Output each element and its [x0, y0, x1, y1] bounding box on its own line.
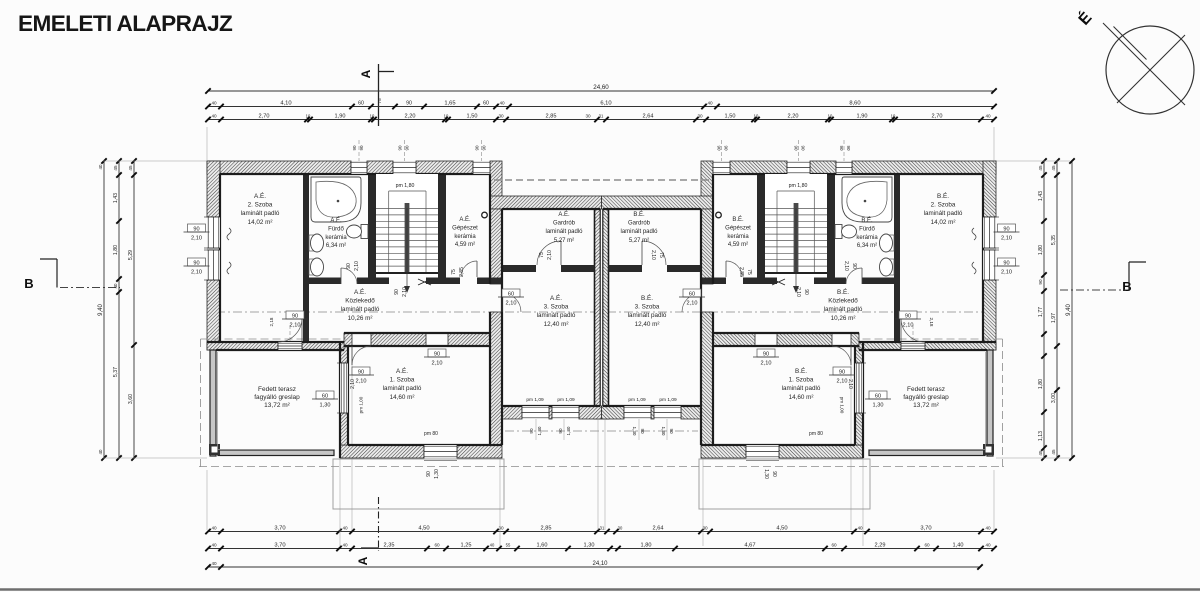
svg-text:Gardrób: Gardrób: [628, 221, 651, 227]
svg-text:1. Szoba: 1. Szoba: [390, 377, 415, 384]
svg-text:60: 60: [831, 542, 837, 547]
svg-text:fagyálló greslap: fagyálló greslap: [903, 394, 949, 401]
svg-text:90: 90: [763, 352, 769, 358]
wash basins: [309, 235, 314, 251]
svg-text:40: 40: [113, 283, 118, 288]
svg-text:45: 45: [1051, 165, 1056, 171]
svg-text:1,65: 1,65: [444, 100, 455, 106]
svg-text:A.É.: A.É.: [354, 287, 366, 296]
svg-text:90: 90: [394, 289, 400, 295]
svg-text:40: 40: [707, 100, 713, 105]
svg-text:3,70: 3,70: [274, 525, 285, 531]
svg-text:30: 30: [498, 113, 504, 118]
svg-text:1,80: 1,80: [1038, 379, 1044, 389]
svg-text:2,70: 2,70: [259, 113, 270, 119]
bottom dimension line row 1: [208, 531, 994, 533]
svg-text:3,60: 3,60: [128, 394, 134, 404]
svg-text:4,59 m²: 4,59 m²: [728, 242, 748, 248]
svg-text:90: 90: [193, 261, 199, 267]
svg-text:1,80: 1,80: [113, 245, 119, 255]
svg-text:pm 1,80: pm 1,80: [396, 183, 415, 189]
svg-text:6,10: 6,10: [600, 100, 611, 106]
svg-text:2,64: 2,64: [653, 525, 664, 531]
svg-text:B.É.: B.É.: [937, 191, 949, 200]
svg-text:1. Szoba: 1. Szoba: [789, 377, 814, 384]
svg-text:pm 1,09: pm 1,09: [557, 397, 575, 403]
svg-text:kerámia: kerámia: [454, 234, 476, 240]
flue circle in mechanical room: [482, 212, 488, 218]
svg-text:2,10: 2,10: [837, 379, 848, 385]
svg-text:laminált padló: laminált padló: [824, 306, 863, 313]
svg-text:90: 90: [905, 314, 911, 320]
svg-text:3,70: 3,70: [920, 525, 931, 531]
svg-text:30: 30: [585, 113, 591, 118]
svg-text:10: 10: [891, 113, 896, 118]
svg-text:10: 10: [444, 113, 449, 118]
svg-text:45: 45: [128, 165, 133, 171]
svg-text:40: 40: [342, 525, 348, 530]
svg-text:2,10: 2,10: [402, 287, 408, 297]
svg-text:EMELETI ALAPRAJZ: EMELETI ALAPRAJZ: [18, 11, 233, 36]
svg-text:90: 90: [529, 428, 534, 434]
north arrow compass: [1106, 26, 1194, 114]
svg-text:13,72 m²: 13,72 m²: [264, 402, 290, 409]
svg-text:75: 75: [746, 269, 752, 275]
svg-text:14,60 m²: 14,60 m²: [789, 394, 814, 401]
svg-text:90: 90: [846, 145, 851, 151]
svg-text:B.É.: B.É.: [837, 287, 849, 296]
svg-text:2,10: 2,10: [290, 323, 301, 329]
svg-text:90: 90: [794, 145, 799, 151]
svg-text:40: 40: [211, 542, 217, 547]
svg-text:60: 60: [358, 100, 364, 106]
svg-text:1,30: 1,30: [584, 542, 595, 548]
svg-text:B: B: [1122, 279, 1131, 294]
svg-text:13,72 m²: 13,72 m²: [913, 402, 939, 409]
svg-text:12,40 m²: 12,40 m²: [544, 321, 569, 328]
svg-text:90: 90: [801, 145, 806, 151]
svg-text:A.É.: A.É.: [459, 216, 471, 223]
svg-text:10,26 m²: 10,26 m²: [348, 315, 373, 322]
svg-text:90: 90: [1038, 279, 1043, 285]
svg-text:pm 80: pm 80: [424, 431, 438, 437]
sheet bottom border line: [0, 588, 1200, 590]
svg-text:40: 40: [499, 100, 505, 105]
svg-text:laminált padló: laminált padló: [620, 229, 658, 235]
svg-text:5,37: 5,37: [113, 367, 119, 377]
svg-text:1,43: 1,43: [1038, 191, 1044, 201]
svg-text:10,26 m²: 10,26 m²: [831, 315, 856, 322]
svg-text:75: 75: [539, 252, 545, 258]
svg-text:laminált padló: laminált padló: [341, 306, 380, 313]
svg-text:10: 10: [306, 113, 311, 118]
svg-text:90: 90: [398, 145, 403, 151]
svg-text:90: 90: [482, 145, 487, 151]
svg-text:2,18: 2,18: [929, 318, 934, 327]
svg-text:90: 90: [669, 428, 674, 434]
svg-text:14,02 m²: 14,02 m²: [931, 219, 956, 226]
svg-text:90: 90: [640, 428, 645, 434]
svg-text:2,10: 2,10: [687, 301, 698, 307]
svg-text:B.É.: B.É.: [795, 366, 807, 375]
svg-text:4,67: 4,67: [744, 542, 755, 548]
svg-text:31: 31: [599, 113, 604, 118]
svg-text:90: 90: [1003, 261, 1009, 267]
svg-text:90: 90: [352, 145, 357, 151]
svg-text:1,25: 1,25: [461, 542, 472, 548]
svg-text:90: 90: [803, 289, 809, 295]
svg-text:40: 40: [211, 100, 217, 105]
svg-text:90: 90: [851, 263, 857, 269]
svg-text:60: 60: [322, 394, 328, 400]
svg-text:2,10: 2,10: [843, 261, 849, 271]
svg-text:12,40 m²: 12,40 m²: [635, 321, 660, 328]
svg-text:45: 45: [113, 165, 118, 171]
west wall of room 1: [340, 342, 348, 363]
svg-text:1,30: 1,30: [632, 427, 637, 436]
svg-text:2. Szoba: 2. Szoba: [248, 202, 273, 209]
toilet: [361, 225, 368, 239]
svg-text:A.É.: A.É.: [254, 191, 266, 200]
svg-text:1,77: 1,77: [1038, 307, 1044, 317]
svg-text:9,40: 9,40: [1066, 304, 1072, 316]
svg-text:A.É.: A.É.: [330, 217, 342, 224]
svg-text:90: 90: [475, 145, 480, 151]
svg-text:60: 60: [483, 100, 489, 106]
central party wall: [595, 209, 601, 419]
svg-text:2,18: 2,18: [269, 317, 274, 326]
svg-text:kerámia: kerámia: [325, 235, 347, 241]
left dimension column total 9,40: [103, 161, 105, 458]
top dimension line row 3: [208, 119, 994, 121]
svg-text:14,60 m²: 14,60 m²: [390, 394, 415, 401]
svg-text:4,10: 4,10: [280, 100, 291, 106]
svg-text:2,10: 2,10: [650, 250, 656, 260]
svg-text:90: 90: [426, 471, 432, 477]
svg-text:2,10: 2,10: [1001, 270, 1012, 276]
terrace north wall: [207, 342, 278, 350]
svg-text:2,10: 2,10: [761, 361, 772, 367]
svg-text:kerámia: kerámia: [856, 235, 878, 241]
svg-text:laminált padló: laminált padló: [924, 210, 963, 217]
svg-text:1,90: 1,90: [335, 113, 346, 119]
west exterior wall: [207, 161, 220, 217]
svg-text:A: A: [356, 556, 370, 565]
svg-text:75: 75: [377, 98, 383, 104]
svg-text:40: 40: [985, 542, 991, 547]
svg-text:2,85: 2,85: [459, 267, 465, 277]
svg-text:14,02 m²: 14,02 m²: [248, 219, 273, 226]
svg-text:1,97: 1,97: [1051, 313, 1057, 323]
svg-text:Közlekedő: Közlekedő: [828, 298, 858, 305]
interior wall stair-bay/gardrob: [490, 209, 502, 284]
svg-text:40: 40: [211, 113, 217, 118]
svg-text:2,10: 2,10: [356, 379, 367, 385]
svg-text:1,80: 1,80: [1038, 245, 1044, 255]
svg-text:60: 60: [689, 292, 695, 298]
svg-text:4,59 m²: 4,59 m²: [455, 242, 475, 248]
svg-text:2,20: 2,20: [788, 113, 799, 119]
recessed middle exterior wall: [490, 196, 602, 209]
svg-text:90: 90: [292, 314, 298, 320]
svg-text:9,40: 9,40: [98, 304, 104, 316]
svg-text:2,85: 2,85: [738, 267, 744, 277]
svg-text:90: 90: [406, 100, 412, 106]
svg-text:1,30: 1,30: [763, 469, 769, 479]
svg-text:90: 90: [717, 145, 722, 151]
svg-text:2,20: 2,20: [405, 113, 416, 119]
svg-text:laminált padló: laminált padló: [241, 210, 280, 217]
svg-text:30: 30: [702, 525, 708, 530]
svg-text:60: 60: [508, 292, 514, 298]
svg-text:40: 40: [985, 113, 991, 118]
svg-text:2,10: 2,10: [191, 270, 202, 276]
right dimension column total 9,40: [1071, 161, 1073, 458]
svg-text:45: 45: [1038, 165, 1043, 171]
left dimension column 2: [118, 161, 120, 458]
svg-text:pm 80: pm 80: [809, 431, 823, 437]
svg-text:2,10: 2,10: [350, 379, 356, 389]
balcony outline below right unit: [699, 459, 870, 509]
svg-text:10: 10: [370, 113, 375, 118]
top dimension line total 24,60: [208, 90, 994, 92]
svg-text:5,29: 5,29: [128, 250, 134, 260]
svg-text:30: 30: [498, 525, 504, 530]
svg-text:4,50: 4,50: [418, 525, 429, 531]
svg-text:75: 75: [451, 269, 457, 275]
svg-text:40: 40: [98, 449, 103, 454]
svg-text:45: 45: [1051, 449, 1056, 455]
left dimension column 3: [133, 161, 135, 458]
south wall of middle section: [502, 406, 522, 419]
svg-text:2,29: 2,29: [875, 542, 886, 548]
svg-text:90: 90: [358, 370, 364, 376]
svg-text:1,80: 1,80: [641, 542, 652, 548]
svg-text:90: 90: [434, 352, 440, 358]
svg-text:90: 90: [839, 370, 845, 376]
svg-text:pm 1,80: pm 1,80: [789, 183, 808, 189]
svg-text:45: 45: [1038, 450, 1043, 456]
svg-text:1,50: 1,50: [725, 113, 736, 119]
svg-text:1,40: 1,40: [953, 542, 964, 548]
svg-text:2,10: 2,10: [191, 236, 202, 242]
svg-text:2,64: 2,64: [643, 113, 654, 119]
svg-text:10: 10: [754, 113, 759, 118]
svg-text:90: 90: [771, 471, 777, 477]
svg-text:60: 60: [434, 542, 440, 547]
svg-text:1,50: 1,50: [467, 113, 478, 119]
svg-text:5,27 m²: 5,27 m²: [629, 238, 649, 244]
svg-text:90: 90: [359, 145, 364, 151]
svg-text:24,60: 24,60: [593, 84, 609, 91]
hallway south wall: [344, 333, 352, 346]
svg-text:A: A: [359, 69, 373, 78]
svg-text:6,34 m²: 6,34 m²: [857, 243, 877, 249]
svg-text:1,30: 1,30: [434, 469, 440, 479]
svg-text:pm 1,09: pm 1,09: [628, 397, 646, 403]
interior partition walls: [303, 174, 309, 342]
svg-text:40: 40: [342, 542, 348, 547]
svg-text:1,43: 1,43: [113, 193, 119, 203]
svg-text:10: 10: [828, 113, 833, 118]
svg-text:5,35: 5,35: [1051, 235, 1057, 245]
svg-text:24,10: 24,10: [592, 561, 608, 567]
svg-text:Fürdő: Fürdő: [859, 226, 875, 232]
svg-text:pm 1,00: pm 1,00: [359, 396, 364, 413]
svg-text:1,30: 1,30: [537, 426, 542, 435]
notch side wall: [490, 161, 502, 209]
door/window dimension label boxes: [286, 311, 304, 319]
svg-text:Gardrób: Gardrób: [553, 221, 576, 227]
svg-text:3,00: 3,00: [1051, 393, 1057, 403]
svg-text:fagyálló greslap: fagyálló greslap: [254, 394, 300, 401]
top dimension line row 2: [208, 106, 994, 108]
svg-text:3. Szoba: 3. Szoba: [635, 304, 660, 311]
svg-text:Gépészet: Gépészet: [452, 225, 478, 231]
right dimension column 2: [1056, 161, 1058, 458]
svg-text:B.É.: B.É.: [633, 211, 645, 218]
svg-text:B.É.: B.É.: [861, 217, 873, 224]
svg-text:2,10: 2,10: [547, 250, 553, 260]
terrace side wall: [210, 350, 216, 456]
svg-text:1,30: 1,30: [873, 403, 884, 409]
svg-text:A.É.: A.É.: [396, 366, 408, 375]
section marker A top: [378, 64, 380, 126]
svg-text:1,30: 1,30: [661, 427, 666, 436]
svg-text:2,10: 2,10: [795, 287, 801, 297]
svg-text:pm 1,00: pm 1,00: [840, 397, 845, 414]
svg-text:90: 90: [1003, 227, 1009, 233]
staircase: [376, 174, 438, 277]
svg-text:Fedett terasz: Fedett terasz: [258, 386, 296, 393]
svg-text:1,90: 1,90: [857, 113, 868, 119]
svg-text:90: 90: [346, 263, 352, 269]
svg-text:Gépészet: Gépészet: [725, 225, 751, 231]
svg-text:2,10: 2,10: [432, 361, 443, 367]
svg-text:30: 30: [618, 525, 623, 530]
svg-text:40: 40: [211, 561, 217, 566]
svg-text:60: 60: [924, 542, 930, 547]
svg-text:2,85: 2,85: [541, 525, 552, 531]
svg-text:90: 90: [558, 428, 563, 434]
svg-text:40: 40: [490, 542, 495, 547]
svg-text:40: 40: [985, 525, 991, 530]
svg-text:2. Szoba: 2. Szoba: [931, 202, 956, 209]
svg-text:1,30: 1,30: [320, 403, 331, 409]
svg-text:4,50: 4,50: [776, 525, 787, 531]
svg-text:laminált padló: laminált padló: [537, 312, 576, 319]
svg-text:6,34 m²: 6,34 m²: [326, 243, 346, 249]
svg-text:60: 60: [875, 394, 881, 400]
svg-text:2,10: 2,10: [903, 323, 914, 329]
bottom dimension line total 24,10: [208, 566, 980, 568]
svg-text:1,60: 1,60: [537, 542, 548, 548]
svg-text:A.É.: A.É.: [558, 211, 570, 218]
svg-text:90: 90: [193, 227, 199, 233]
svg-text:40: 40: [857, 525, 863, 530]
svg-text:Fedett terasz: Fedett terasz: [907, 386, 945, 393]
south wall of room 1 block: [340, 445, 424, 458]
svg-text:laminált padló: laminált padló: [545, 229, 583, 235]
svg-text:Közlekedő: Közlekedő: [345, 298, 375, 305]
svg-text:2,10: 2,10: [847, 379, 853, 389]
bottom dimension line row 2: [208, 548, 994, 550]
svg-text:2,10: 2,10: [506, 301, 517, 307]
svg-text:kerámia: kerámia: [727, 234, 749, 240]
svg-text:2,10: 2,10: [1001, 236, 1012, 242]
svg-text:40: 40: [98, 164, 103, 169]
svg-text:pm 1,09: pm 1,09: [526, 397, 544, 403]
corner bathtub: [311, 177, 361, 222]
svg-text:55: 55: [506, 542, 511, 547]
svg-text:laminált padló: laminált padló: [383, 385, 422, 392]
svg-text:5,27 m²: 5,27 m²: [554, 238, 574, 244]
svg-text:3. Szoba: 3. Szoba: [544, 304, 569, 311]
svg-text:2,70: 2,70: [932, 113, 943, 119]
svg-text:30: 30: [697, 113, 703, 118]
svg-text:Fürdő: Fürdő: [328, 226, 344, 232]
svg-text:laminált padló: laminált padló: [628, 312, 667, 319]
svg-text:B: B: [24, 276, 33, 291]
right dimension column 1: [1043, 161, 1045, 458]
svg-text:2,85: 2,85: [546, 113, 557, 119]
svg-text:2,10: 2,10: [354, 261, 360, 271]
svg-text:B.É.: B.É.: [732, 216, 744, 223]
balcony outline below left unit: [333, 459, 504, 509]
svg-text:pm 1,09: pm 1,09: [659, 397, 677, 403]
north exterior wall: [207, 161, 351, 174]
svg-text:3,70: 3,70: [274, 542, 285, 548]
svg-text:40: 40: [211, 525, 217, 530]
svg-text:8,60: 8,60: [849, 100, 860, 106]
svg-text:A.É.: A.É.: [550, 293, 562, 302]
svg-text:31: 31: [600, 525, 605, 530]
section marker A bottom: [378, 497, 380, 551]
svg-text:1,13: 1,13: [1038, 431, 1044, 441]
svg-text:2,35: 2,35: [384, 542, 395, 548]
door swing arcs: [301, 317, 303, 342]
svg-text:90: 90: [839, 145, 844, 151]
svg-text:1,30: 1,30: [566, 426, 571, 435]
svg-text:75: 75: [658, 252, 664, 258]
svg-text:B.É.: B.É.: [641, 293, 653, 302]
svg-text:90: 90: [405, 145, 410, 151]
svg-text:laminált padló: laminált padló: [782, 385, 821, 392]
svg-text:90: 90: [724, 145, 729, 151]
